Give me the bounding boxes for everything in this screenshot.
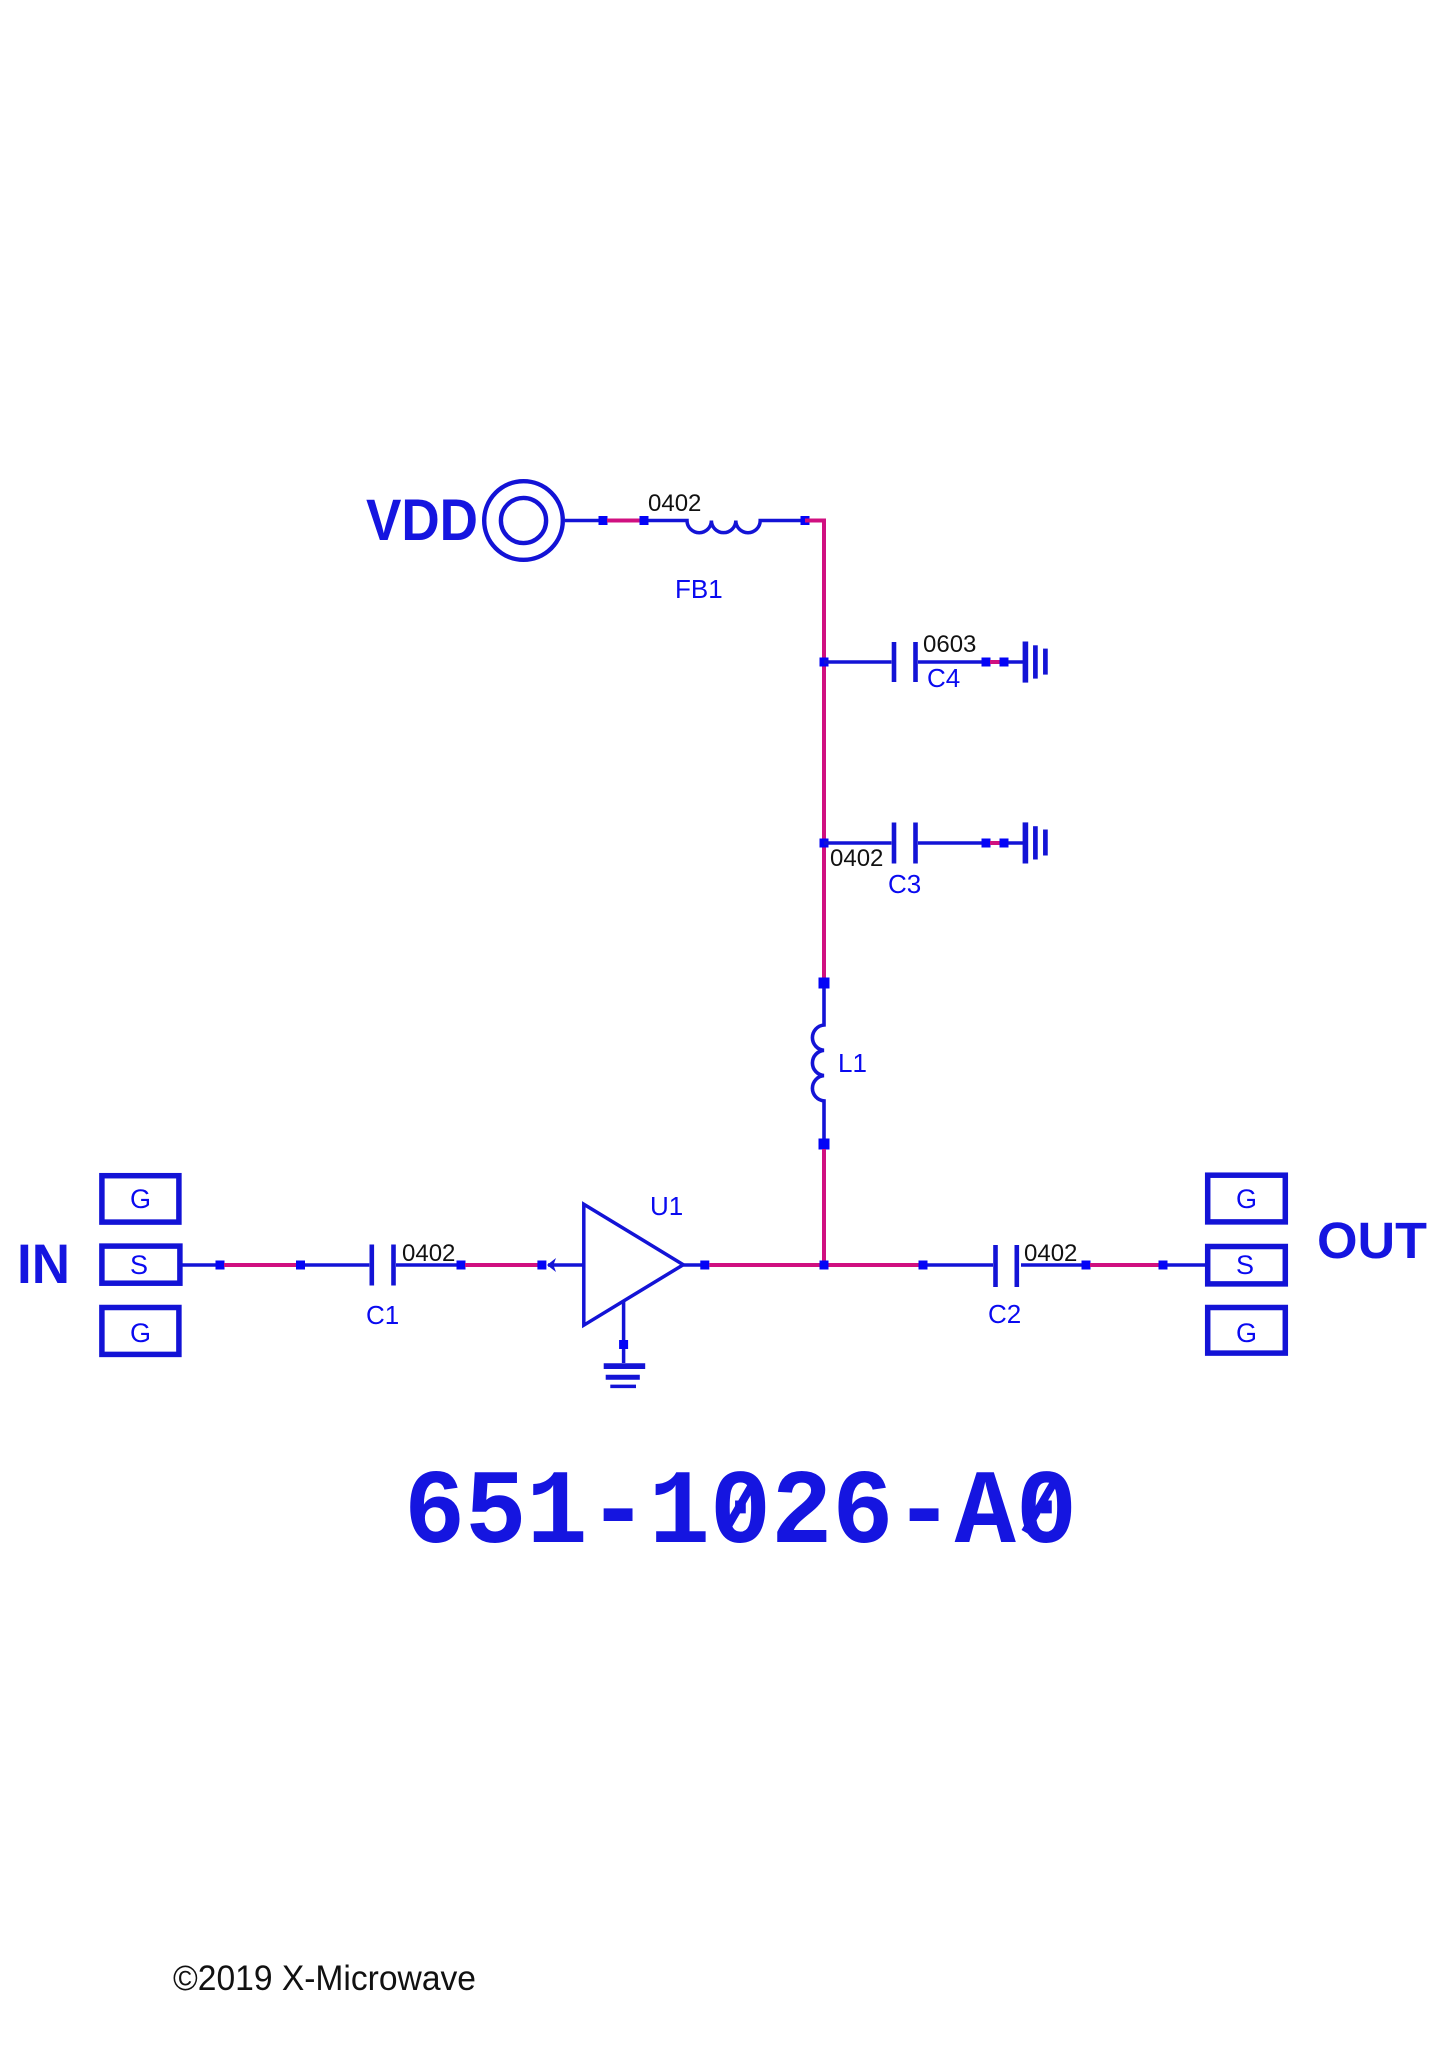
ground (C4) — [1025, 642, 1045, 683]
svg-text:IN: IN — [17, 1232, 70, 1295]
value label 0402 (FB1) — [648, 490, 701, 517]
junction FB1 pin2 — [801, 516, 810, 525]
label FB1 — [675, 574, 723, 604]
port VDD label — [366, 488, 478, 553]
svg-text:G: G — [130, 1318, 151, 1348]
svg-text:0402: 0402 — [402, 1240, 455, 1267]
junction C4 tap — [820, 658, 829, 667]
port VDD symbol — [484, 481, 563, 560]
wire to C4 ground — [1008, 660, 1023, 664]
svg-text:G: G — [1236, 1318, 1257, 1348]
wire net VDD (magenta) — [607, 519, 640, 523]
svg-text:U1: U1 — [650, 1191, 683, 1221]
junction C1 pin1 — [296, 1261, 305, 1270]
junction C4-a — [982, 658, 991, 667]
wire C1 to U1 (magenta) — [465, 1263, 538, 1267]
inductor L1 — [812, 988, 824, 1139]
wire S pad to node — [182, 1263, 216, 1267]
svg-text:0402: 0402 — [1024, 1240, 1077, 1267]
svg-text:651-1026-A0: 651-1026-A0 — [404, 1454, 1077, 1574]
wire to C2 — [928, 1263, 994, 1267]
wire C2 to node — [1021, 1263, 1082, 1267]
value label 0402 (C3) — [830, 845, 883, 872]
svg-text:C2: C2 — [988, 1299, 1021, 1329]
svg-text:L1: L1 — [838, 1048, 867, 1078]
junction U1 output — [700, 1261, 709, 1270]
label L1 — [838, 1048, 867, 1078]
junction C4-b — [1000, 658, 1009, 667]
svg-text:0402: 0402 — [648, 490, 701, 517]
wire VDD rail C4-C3 (magenta) — [822, 662, 826, 843]
wire FB1 to rail corner (magenta) — [805, 521, 824, 663]
svg-text:S: S — [1236, 1250, 1254, 1280]
junction U1 ground — [619, 1340, 628, 1349]
svg-text:FB1: FB1 — [675, 574, 723, 604]
svg-text:0402: 0402 — [830, 845, 883, 872]
svg-text:VDD: VDD — [366, 488, 478, 553]
junction VDD-a — [599, 516, 608, 525]
value label 0603 (C4) — [923, 631, 976, 658]
capacitor C2 — [996, 1245, 1017, 1287]
label C1 — [366, 1300, 399, 1330]
svg-text:C4: C4 — [927, 663, 960, 693]
junction C3-b — [1000, 839, 1009, 848]
label C3 — [888, 869, 921, 899]
pad G (IN top) — [102, 1176, 179, 1222]
pad G (OUT bottom) — [1208, 1308, 1286, 1354]
amplifier U1 — [584, 1204, 684, 1325]
wire arrow to U1 — [548, 1263, 583, 1267]
junction L1 pin2 — [819, 1139, 830, 1150]
svg-text:C3: C3 — [888, 869, 921, 899]
wire to C3 ground — [1008, 841, 1023, 845]
junction L1 pin1 — [819, 978, 830, 989]
wire U1 to T node (magenta) — [709, 1263, 820, 1267]
wire C4 to node — [918, 660, 982, 664]
wire L1 to main line (magenta) — [822, 1149, 826, 1265]
ground (C3) — [1025, 822, 1045, 863]
svg-text:©2019 X-Microwave: ©2019 X-Microwave — [173, 1959, 476, 1998]
wire C1 to node — [396, 1263, 457, 1267]
svg-text:G: G — [130, 1184, 151, 1214]
wire C4 ground net (magenta) — [990, 660, 1000, 664]
svg-text:G: G — [1236, 1184, 1257, 1214]
junction C3-a — [982, 839, 991, 848]
arrow U1 input — [547, 1258, 556, 1272]
junction IN-a — [216, 1261, 225, 1270]
junction FB1 pin1 — [640, 516, 649, 525]
wire OUT net (magenta) — [1090, 1263, 1160, 1267]
wire tap to C3 — [824, 841, 892, 845]
capacitor C4 — [894, 642, 916, 682]
label C4 — [927, 663, 960, 693]
svg-text:0603: 0603 — [923, 631, 976, 658]
svg-text:C1: C1 — [366, 1300, 399, 1330]
ferrite bead FB1 — [648, 521, 801, 533]
wire C3 ground net (magenta) — [990, 841, 1000, 845]
label C2 — [988, 1299, 1021, 1329]
junction T node — [820, 1261, 829, 1270]
junction C3 tap — [820, 839, 829, 848]
wire T node to C2 (magenta) — [829, 1263, 921, 1267]
value label 0402 (C1) — [402, 1240, 455, 1267]
junction U1 input — [537, 1261, 546, 1270]
value label 0402 (C2) — [1024, 1240, 1077, 1267]
ground (U1) — [604, 1366, 646, 1386]
junction C2-b — [1082, 1261, 1091, 1270]
pad G (IN bottom) — [102, 1308, 179, 1355]
junction C2 pin1 — [919, 1261, 928, 1270]
copyright note — [173, 1959, 476, 1998]
wire to C1 — [305, 1263, 369, 1267]
junction OUT-a — [1159, 1261, 1168, 1270]
port OUT label — [1317, 1212, 1427, 1269]
title 651-1026-A0 — [404, 1454, 1077, 1574]
pad S (OUT) — [1208, 1247, 1286, 1284]
wire VDD port to node — [565, 519, 603, 523]
capacitor C1 — [372, 1245, 394, 1286]
wire IN net (magenta) — [224, 1263, 297, 1267]
junction C1-b — [457, 1261, 466, 1270]
wire U1 output — [683, 1263, 701, 1267]
pad G (OUT top) — [1208, 1175, 1286, 1222]
wire tap to C4 — [824, 660, 892, 664]
pad S (IN) — [102, 1246, 180, 1283]
capacitor C3 — [894, 823, 916, 864]
label U1 — [650, 1191, 683, 1221]
svg-text:OUT: OUT — [1317, 1212, 1427, 1269]
wire to S pad (OUT) — [1168, 1263, 1206, 1267]
wire U1 ground stem — [622, 1301, 626, 1363]
wire C3 to node — [918, 841, 982, 845]
wire VDD rail C3-L1 (magenta) — [822, 843, 826, 983]
port IN label — [17, 1232, 70, 1295]
svg-text:S: S — [130, 1250, 148, 1280]
